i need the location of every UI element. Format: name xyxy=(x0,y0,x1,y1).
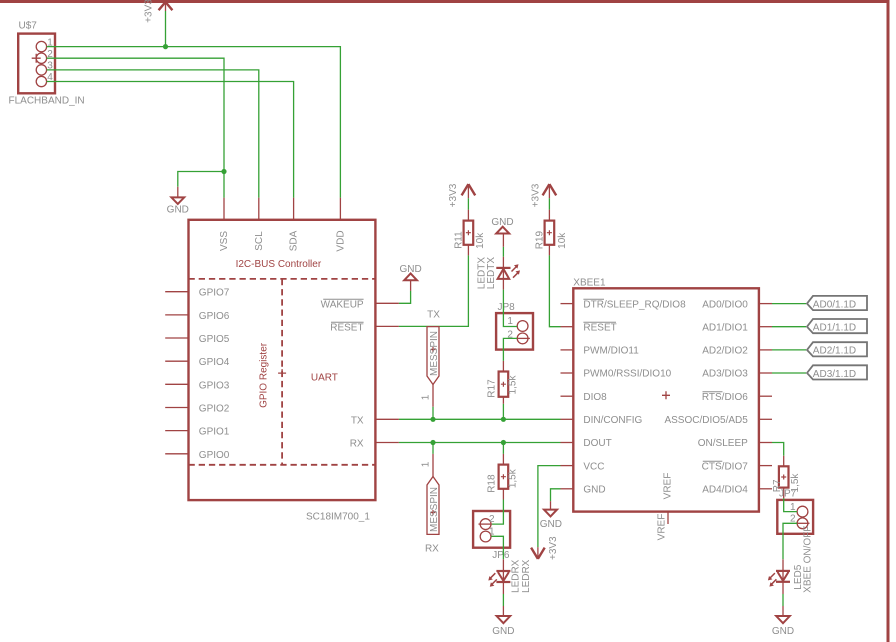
svg-text:LEDTX: LEDTX xyxy=(486,257,497,290)
svg-text:LEDRX: LEDRX xyxy=(510,559,521,593)
svg-text:10k: 10k xyxy=(557,232,568,249)
junction +3V3/pin1 xyxy=(163,44,168,49)
wire ON/SLEEP to R7 xyxy=(772,443,784,456)
wire JP8 pin2 to R17 xyxy=(503,338,517,361)
svg-text:XBEE ON/OFF: XBEE ON/OFF xyxy=(802,526,813,593)
svg-text:SDA: SDA xyxy=(289,230,300,251)
svg-text:PWM/DIO11: PWM/DIO11 xyxy=(583,346,639,357)
wire R18 to JP6 pin2 xyxy=(492,500,504,525)
junction RX/MESSPIN xyxy=(430,440,435,445)
ground GND (left of chip) xyxy=(167,187,189,216)
svg-text:+3V3: +3V3 xyxy=(144,0,155,23)
IC XBEE1 xyxy=(573,278,759,512)
resistor R11 xyxy=(454,210,487,256)
wire JP7 pin2 to LED5 xyxy=(783,523,797,559)
svg-text:RESET: RESET xyxy=(330,322,363,333)
svg-text:2: 2 xyxy=(489,514,495,525)
svg-text:1: 1 xyxy=(507,316,513,327)
wire VCC to +3V3 xyxy=(538,466,561,548)
svg-text:GND: GND xyxy=(399,264,421,275)
wire RX net xyxy=(399,442,561,444)
pin SCL stub xyxy=(258,198,260,220)
svg-text:MESSPIN: MESSPIN xyxy=(429,331,440,376)
svg-text:AD0/DIO0: AD0/DIO0 xyxy=(702,299,748,310)
svg-text:GND: GND xyxy=(492,626,514,637)
jumper JP8 xyxy=(496,302,533,350)
+3V3 supply (R11) xyxy=(448,183,475,209)
svg-text:+3V3: +3V3 xyxy=(448,183,459,207)
pin SDA stub xyxy=(293,198,295,220)
svg-text:GND: GND xyxy=(540,519,562,530)
jumper JP6 xyxy=(473,511,510,561)
svg-text:VDD: VDD xyxy=(335,230,346,251)
pin RESET xyxy=(375,325,399,327)
svg-text:AD3/DIO3: AD3/DIO3 xyxy=(702,369,748,380)
svg-text:AD1/DIO1: AD1/DIO1 xyxy=(702,322,748,333)
wire LED to JP8 pin1 xyxy=(503,290,517,327)
LED LEDTX xyxy=(477,257,520,290)
junction RX/R18 xyxy=(501,440,506,445)
svg-text:GND: GND xyxy=(583,485,605,496)
svg-text:1: 1 xyxy=(421,394,432,400)
ground GND (LED5) xyxy=(772,582,794,637)
frame right border xyxy=(887,0,890,642)
svg-text:VCC: VCC xyxy=(583,461,604,472)
net flag AD2/1.1D xyxy=(772,342,867,357)
svg-text:FLACHBAND_IN: FLACHBAND_IN xyxy=(9,96,85,107)
svg-text:GPIO0: GPIO0 xyxy=(199,450,230,461)
wire pin2 to VSS xyxy=(47,58,224,198)
wire WAKEUP to GND xyxy=(399,291,411,304)
+3V3 supply (VCC, pointing down) xyxy=(531,536,559,560)
pin VREF stub xyxy=(667,512,669,524)
svg-text:GND: GND xyxy=(772,626,794,637)
resistor R17 xyxy=(487,361,519,419)
wire +3V3 stem xyxy=(165,11,167,47)
wire TX net xyxy=(399,418,561,420)
svg-text:1: 1 xyxy=(421,461,432,467)
net flag AD1/1.1D xyxy=(772,319,867,334)
wire GND pin to GND xyxy=(551,489,561,501)
svg-text:GPIO6: GPIO6 xyxy=(199,311,230,322)
svg-text:VREF: VREF xyxy=(663,473,674,500)
svg-text:DOUT: DOUT xyxy=(583,438,611,449)
svg-text:TX: TX xyxy=(427,309,440,320)
XBEE left pin stubs xyxy=(561,304,574,489)
svg-text:RX: RX xyxy=(425,543,439,554)
svg-text:UART: UART xyxy=(311,373,338,384)
svg-text:AD1/1.1D: AD1/1.1D xyxy=(813,323,856,334)
svg-text:10k: 10k xyxy=(475,232,486,249)
svg-text:AD2/1.1D: AD2/1.1D xyxy=(813,346,856,357)
svg-text:R11: R11 xyxy=(454,231,465,249)
XBEE right pin stubs xyxy=(759,304,772,489)
wire pin4 to SDA xyxy=(47,82,294,198)
svg-text:GND: GND xyxy=(167,205,189,216)
svg-text:JP6: JP6 xyxy=(492,550,510,561)
wire pin3 to SCL xyxy=(47,70,259,198)
svg-text:GPIO Register: GPIO Register xyxy=(259,342,270,408)
svg-text:JP7: JP7 xyxy=(779,488,797,499)
svg-text:TX: TX xyxy=(351,415,364,426)
svg-text:AD3/1.1D: AD3/1.1D xyxy=(813,369,856,380)
svg-text:ASSOC/DIO5/AD5: ASSOC/DIO5/AD5 xyxy=(664,415,748,426)
svg-text:R17: R17 xyxy=(487,379,498,398)
svg-text:GND: GND xyxy=(491,217,513,228)
svg-text:RX: RX xyxy=(350,439,364,450)
svg-text:R18: R18 xyxy=(487,474,498,493)
pin WAKEUP xyxy=(375,302,399,304)
pin TX xyxy=(375,418,399,420)
ground GND (LEDRX) xyxy=(492,582,514,637)
svg-text:AD2/DIO2: AD2/DIO2 xyxy=(702,346,748,357)
svg-text:GPIO3: GPIO3 xyxy=(199,380,230,391)
ground GND (LEDTX) xyxy=(491,217,513,257)
net flag AD3/1.1D xyxy=(772,365,867,380)
+3V3 supply (R19) xyxy=(531,183,557,209)
svg-text:1,5k: 1,5k xyxy=(507,468,518,488)
svg-text:GPIO2: GPIO2 xyxy=(199,404,230,415)
svg-text:+3V3: +3V3 xyxy=(548,536,559,560)
svg-text:DIO8: DIO8 xyxy=(583,392,607,403)
junction TX/MESSPIN xyxy=(430,417,435,422)
junction VSS/GND xyxy=(221,169,226,174)
svg-text:CTS/DIO7: CTS/DIO7 xyxy=(702,461,749,472)
svg-text:VSS: VSS xyxy=(219,231,230,251)
wire JP6 pin1 to LEDRX xyxy=(491,536,503,559)
wire RESET to R11 xyxy=(399,255,469,326)
pin RX xyxy=(375,442,399,444)
test pin MESSPIN (RX) xyxy=(421,443,441,555)
svg-text:GPIO7: GPIO7 xyxy=(199,288,230,299)
junction TX/R17 xyxy=(501,417,506,422)
svg-text:DIN/CONFIG: DIN/CONFIG xyxy=(583,415,642,426)
svg-text:VREF: VREF xyxy=(657,514,668,541)
svg-text:U$7: U$7 xyxy=(19,21,38,32)
svg-text:JP8: JP8 xyxy=(498,302,516,313)
svg-text:1,5k: 1,5k xyxy=(507,375,518,395)
svg-text:AD4/DIO4: AD4/DIO4 xyxy=(702,485,748,496)
net flag AD0/1.1D xyxy=(772,296,867,311)
test pin MESSPIN (TX) xyxy=(421,309,441,419)
frame top border xyxy=(0,0,890,3)
svg-text:SC18IM700_1: SC18IM700_1 xyxy=(306,512,370,523)
svg-text:R19: R19 xyxy=(534,230,545,249)
svg-text:LEDRX: LEDRX xyxy=(521,559,532,593)
svg-text:SCL: SCL xyxy=(254,231,265,251)
svg-text:AD0/1.1D: AD0/1.1D xyxy=(813,299,856,310)
+3V3 supply (top) xyxy=(144,0,173,23)
svg-text:RESET: RESET xyxy=(583,322,616,333)
wire R7 to JP7 pin1 xyxy=(784,498,797,511)
pin labels GPIO7-GPIO0 xyxy=(199,288,230,461)
wire R19 to XBEE RESET xyxy=(549,255,560,326)
pin VDD stub xyxy=(339,198,341,220)
resistor R7 xyxy=(772,456,801,499)
svg-text:XBEE1: XBEE1 xyxy=(573,278,606,289)
pin VSS stub xyxy=(223,198,225,220)
svg-text:MESSPIN: MESSPIN xyxy=(429,487,440,532)
pins GPIO7-GPIO0 stubs xyxy=(165,292,188,454)
ground GND (WAKEUP) xyxy=(399,264,421,291)
svg-text:DTR/SLEEP_RQ/DIO8: DTR/SLEEP_RQ/DIO8 xyxy=(583,299,686,310)
svg-text:ON/SLEEP: ON/SLEEP xyxy=(698,438,748,449)
svg-text:WAKEUP: WAKEUP xyxy=(321,299,364,310)
IC U1 SC18IM700_1 xyxy=(189,220,376,523)
ground GND (XBEE) xyxy=(540,501,562,530)
jumper JP7 xyxy=(777,488,813,533)
wire VSS to GND xyxy=(178,172,224,187)
svg-text:GPIO1: GPIO1 xyxy=(199,427,230,438)
wire pin1 to VDD xyxy=(47,47,341,198)
connector U$7 FLACHBAND_IN xyxy=(9,21,85,107)
resistor R18 xyxy=(487,443,519,500)
LED LEDRX xyxy=(488,559,532,593)
svg-text:+3V3: +3V3 xyxy=(531,183,542,207)
resistor R19 xyxy=(534,210,568,256)
svg-text:I2C-BUS Controller: I2C-BUS Controller xyxy=(236,259,322,270)
svg-text:RTS/DIO6: RTS/DIO6 xyxy=(702,392,748,403)
svg-text:GPIO4: GPIO4 xyxy=(199,357,230,368)
svg-text:GPIO5: GPIO5 xyxy=(199,334,230,345)
svg-text:PWM0/RSSI/DIO10: PWM0/RSSI/DIO10 xyxy=(583,369,671,380)
LED LED5 xyxy=(768,526,814,593)
